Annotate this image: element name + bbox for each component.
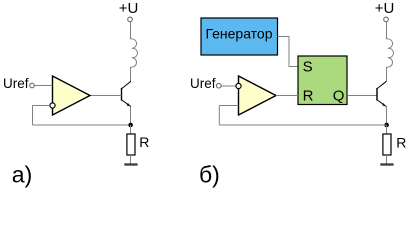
inverting input bubble (a) bbox=[50, 103, 55, 108]
transistor VT2 (b) bbox=[377, 81, 386, 106]
svg-text:R: R bbox=[139, 134, 149, 150]
wire +U terminal to inductor (b) bbox=[386, 22, 388, 39]
wire node to resistor (a) bbox=[130, 125, 132, 134]
feedback wire horizontal to node (a) bbox=[33, 124, 131, 126]
wire generator to S input bbox=[278, 37, 299, 67]
svg-text:Q: Q bbox=[333, 88, 345, 105]
svg-text:а): а) bbox=[12, 161, 32, 187]
op-amp comparator (a) bbox=[53, 76, 91, 115]
svg-text:+U: +U bbox=[119, 0, 139, 17]
wire Q output to base (b) bbox=[347, 95, 377, 97]
feedback wire to op-amp non-inverting input (b) bbox=[219, 105, 238, 107]
feedback wire vertical (b) bbox=[218, 106, 220, 126]
wire inductor to collector (b) bbox=[386, 67, 388, 82]
ground (b) bbox=[380, 163, 393, 165]
wire node to resistor (b) bbox=[386, 125, 388, 134]
feedback wire bubble to corner (a) bbox=[33, 105, 50, 107]
wire resistor to ground (b) bbox=[386, 155, 388, 164]
wire +U terminal to inductor (a) bbox=[130, 22, 132, 39]
+U power terminal (b) bbox=[375, 0, 395, 22]
wire inductor to collector (a) bbox=[130, 67, 132, 82]
svg-text:+U: +U bbox=[375, 0, 395, 17]
inductor L (b) bbox=[387, 39, 394, 67]
Uref input terminal (b) bbox=[217, 83, 222, 88]
svg-text:Uref: Uref bbox=[3, 76, 29, 91]
+U power terminal (a) bbox=[119, 0, 139, 22]
svg-text:S: S bbox=[303, 58, 313, 75]
inverting input bubble (b) bbox=[236, 83, 241, 88]
ground (a) bbox=[124, 163, 137, 165]
node junction dot (b) bbox=[384, 123, 389, 128]
resistor R (b) bbox=[383, 134, 391, 155]
wire resistor to ground (a) bbox=[130, 155, 132, 164]
generator block bbox=[201, 18, 278, 55]
svg-text:R: R bbox=[303, 88, 314, 105]
wire op-amp output to R input (b) bbox=[276, 95, 298, 97]
wire emitter to node (a) bbox=[130, 107, 132, 125]
wire emitter to node (b) bbox=[386, 107, 388, 125]
transistor VT1 (a) bbox=[122, 81, 131, 106]
svg-text:б): б) bbox=[199, 161, 220, 187]
svg-text:Генератор: Генератор bbox=[205, 26, 272, 42]
svg-text:R: R bbox=[396, 134, 406, 150]
op-amp comparator (b) bbox=[239, 76, 277, 115]
feedback wire vertical (a) bbox=[32, 106, 34, 126]
inductor L (a) bbox=[131, 39, 138, 67]
resistor R (a) bbox=[127, 134, 135, 155]
Uref input terminal (a) bbox=[30, 83, 35, 88]
wire Uref terminal to op-amp inverting input (b) bbox=[221, 85, 238, 87]
wire op-amp output to base (a) bbox=[90, 95, 122, 97]
wire Uref terminal to op-amp + input (a) bbox=[34, 85, 52, 87]
SR latch U2 bbox=[298, 56, 347, 105]
node junction dot (a) bbox=[128, 123, 133, 128]
feedback wire horizontal (b) bbox=[219, 124, 386, 126]
svg-text:Uref: Uref bbox=[190, 76, 216, 91]
